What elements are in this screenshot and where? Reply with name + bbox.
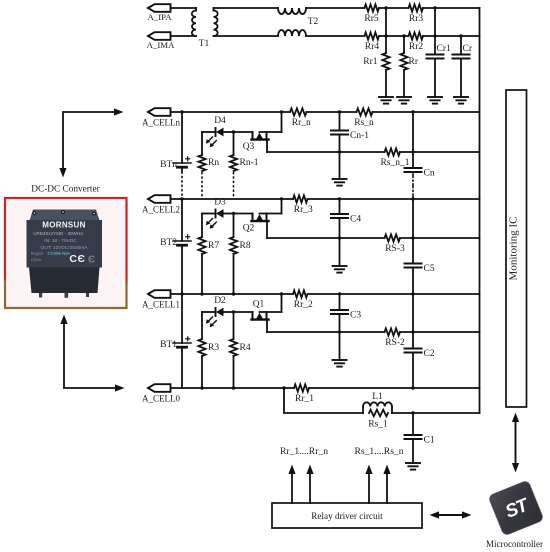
- resistor Rr: [400, 34, 418, 97]
- wire cell rail 2: [171, 198, 480, 200]
- battery BTn: [160, 110, 191, 198]
- ground cell 1: [333, 330, 347, 366]
- svg-text:A_CELL1: A_CELL1: [142, 300, 180, 310]
- box relay driver circuit: [272, 503, 422, 528]
- wire gate 2: [232, 212, 253, 215]
- svg-text:C2: C2: [424, 349, 435, 359]
- svg-text:Rn: Rn: [208, 158, 219, 168]
- connector A_CELL2: [142, 195, 180, 214]
- connector A_IMA: [147, 32, 176, 50]
- box Monitoring IC: [506, 90, 527, 407]
- wire junction link: [384, 6, 387, 37]
- wire right bus: [479, 8, 481, 413]
- svg-text:C5: C5: [424, 264, 435, 274]
- wire gate 1: [232, 310, 253, 313]
- svg-text:Microcontroller: Microcontroller: [486, 539, 543, 549]
- svg-text:Rr_3: Rr_3: [294, 205, 313, 215]
- svg-text:Cn: Cn: [424, 169, 435, 179]
- resistor RS-3: [385, 234, 406, 254]
- capacitor Cn: [405, 110, 435, 198]
- arrow relay output 4: [383, 465, 390, 504]
- svg-text:C3: C3: [350, 311, 361, 321]
- svg-text:Cn-1: Cn-1: [350, 131, 369, 141]
- svg-text:A_CELL2: A_CELL2: [142, 205, 180, 215]
- resistor Rr_1: [294, 384, 314, 404]
- svg-text:Rr_1: Rr_1: [295, 394, 314, 404]
- diode D3: [202, 198, 234, 229]
- arrow IC to microcontroller: [512, 413, 519, 473]
- capacitor C3: [331, 292, 361, 332]
- arrow relay output 2: [306, 465, 313, 504]
- resistor R8: [230, 214, 251, 296]
- transistor Q2: [243, 197, 284, 238]
- svg-text:Rs_1: Rs_1: [368, 420, 388, 430]
- svg-text:D3: D3: [214, 198, 226, 208]
- resistor Rn: [198, 132, 219, 198]
- svg-text:Rs_1....Rs_n: Rs_1....Rs_n: [354, 446, 403, 457]
- svg-text:T1: T1: [199, 39, 210, 49]
- svg-text:D2: D2: [214, 296, 226, 306]
- svg-text:Є: Є: [88, 255, 95, 266]
- svg-text:cⓊus: cⓊus: [31, 256, 41, 262]
- ground Cr1: [428, 97, 442, 104]
- ground Rr1: [379, 97, 393, 104]
- capacitor C2: [405, 292, 435, 388]
- svg-text:Rr_2: Rr_2: [294, 300, 313, 310]
- svg-text:L1: L1: [372, 392, 383, 402]
- label Rs_1....Rs_n: [354, 446, 403, 457]
- wire T1 to T2 bottom: [214, 35, 279, 37]
- svg-text:Rr5: Rr5: [364, 14, 379, 24]
- capacitor Cr1: [427, 6, 452, 97]
- resistor R4: [230, 312, 251, 390]
- svg-text:OUT: 12VDC/2500mA: OUT: 12VDC/2500mA: [41, 245, 89, 251]
- svg-text:Q1: Q1: [253, 300, 265, 310]
- resistor R7: [198, 214, 219, 296]
- svg-text:CЄ: CЄ: [69, 253, 85, 265]
- connector A_CELLn: [142, 108, 180, 127]
- svg-text:Rugged: Rugged: [31, 252, 44, 256]
- svg-text:DC-DC Converter: DC-DC Converter: [31, 185, 100, 195]
- svg-text:Monitoring IC: Monitoring IC: [508, 217, 520, 281]
- connector A_CELL1: [142, 290, 180, 309]
- svg-text:Rr_n: Rr_n: [292, 118, 311, 128]
- svg-text:C1: C1: [424, 436, 435, 446]
- diode D2: [202, 296, 234, 327]
- wire cell rail n: [171, 111, 480, 113]
- resistor Rs_n: [354, 108, 374, 128]
- svg-text:A_CELLn: A_CELLn: [142, 118, 180, 128]
- label DC-DC Converter: [31, 185, 100, 195]
- resistor Rs_1: [368, 410, 388, 430]
- ground C1: [406, 463, 420, 470]
- wire A_IMA to T1: [171, 35, 197, 37]
- ground cell 2: [333, 236, 347, 272]
- wire A_IPA to T1: [171, 8, 197, 11]
- svg-text:R3: R3: [208, 343, 219, 353]
- svg-text:Cr1: Cr1: [437, 44, 452, 54]
- inductor L1: [363, 392, 392, 413]
- svg-text:Rr1: Rr1: [363, 57, 378, 67]
- ground Rr: [397, 97, 411, 104]
- transformer T2: [278, 8, 319, 36]
- svg-text:C4: C4: [350, 215, 361, 225]
- svg-text:MORNSUN: MORNSUN: [42, 221, 85, 230]
- svg-text:R4: R4: [240, 343, 251, 353]
- ground Cr: [454, 97, 468, 104]
- label Microcontroller: [486, 539, 543, 549]
- resistor Rr_n: [290, 108, 311, 128]
- transistor Q1: [252, 292, 284, 332]
- capacitor C1: [405, 411, 435, 463]
- wire gate n: [232, 130, 253, 133]
- capacitor C4: [331, 197, 361, 238]
- svg-text:Q2: Q2: [243, 224, 255, 234]
- svg-text:A_IPA: A_IPA: [147, 12, 172, 22]
- resistor Rr3: [409, 4, 424, 24]
- wire source row 2: [267, 237, 480, 239]
- box DC-DC converter photo frame: [5, 198, 127, 308]
- wire cell rail 0: [171, 386, 480, 389]
- svg-text:R7: R7: [208, 241, 219, 251]
- svg-text:Rn-1: Rn-1: [240, 158, 259, 168]
- svg-text:Rs_n_1: Rs_n_1: [380, 158, 409, 168]
- resistor Rn-1: [230, 132, 259, 198]
- arrow relay output 1: [288, 465, 295, 504]
- wire branch L1: [282, 386, 479, 413]
- svg-text:BTn: BTn: [160, 160, 177, 170]
- svg-text:Rr3: Rr3: [409, 14, 424, 24]
- resistor Rs_n_1: [380, 148, 409, 168]
- svg-text:T2: T2: [308, 17, 319, 27]
- connector A_IPA: [147, 4, 172, 22]
- arrow relay output 3: [365, 465, 372, 504]
- svg-text:RS-2: RS-2: [385, 338, 405, 348]
- ground cell n: [333, 150, 347, 185]
- svg-text:Q3: Q3: [243, 142, 255, 152]
- svg-text:Rs_n: Rs_n: [354, 118, 374, 128]
- svg-text:RS-3: RS-3: [385, 244, 405, 254]
- wire source row 1: [267, 331, 480, 333]
- resistor Rr4: [365, 32, 380, 52]
- svg-text:URB4812YMD - 30WH3: URB4812YMD - 30WH3: [33, 231, 83, 236]
- resistor Rr5: [364, 4, 379, 24]
- svg-text:A_IMA: A_IMA: [147, 40, 176, 50]
- svg-text:D4: D4: [214, 116, 226, 126]
- wire source row n: [267, 151, 480, 153]
- capacitor C5: [405, 197, 435, 294]
- svg-text:IN: 18 - 75VDC: IN: 18 - 75VDC: [44, 238, 77, 244]
- connector A_CELL0: [142, 384, 180, 403]
- arrow DC-DC to A_CELLn: [59, 108, 123, 177]
- resistor Rr_3: [293, 195, 313, 215]
- resistor Rr2: [409, 32, 424, 52]
- resistor R3: [198, 312, 219, 390]
- svg-text:Rr4: Rr4: [365, 42, 380, 52]
- wire second rail: [306, 35, 480, 37]
- wire top rail: [306, 7, 480, 9]
- svg-text:BT1: BT1: [160, 340, 177, 350]
- resistor Rr_2: [293, 290, 313, 310]
- battery BT2: [160, 197, 191, 294]
- capacitor Cr: [453, 34, 473, 97]
- svg-text:Rr2: Rr2: [409, 42, 424, 52]
- chip microcontroller ST: [488, 480, 544, 536]
- wire cell rail 1: [171, 293, 480, 295]
- arrow DC-DC to A_CELL0: [60, 315, 124, 392]
- transistor Q3: [243, 110, 284, 152]
- arrow relay to microcontroller: [430, 511, 472, 518]
- diode D4: [202, 116, 234, 147]
- capacitor Cn-1: [331, 110, 369, 152]
- svg-text:Cr: Cr: [463, 44, 473, 54]
- label Rr_1....Rr_n: [280, 446, 328, 457]
- svg-text:2:1 wide input: 2:1 wide input: [47, 252, 69, 256]
- svg-text:BT2: BT2: [160, 238, 177, 248]
- photo DC-DC module: [27, 210, 103, 298]
- resistor RS-2: [385, 328, 406, 348]
- svg-text:Rr_1....Rr_n: Rr_1....Rr_n: [280, 446, 328, 457]
- svg-text:A_CELL0: A_CELL0: [142, 394, 180, 404]
- svg-text:R8: R8: [240, 241, 251, 251]
- resistor Rr1: [363, 36, 389, 97]
- wire T1 to T2 top: [214, 7, 279, 9]
- svg-text:Rr: Rr: [409, 57, 419, 67]
- transformer T1: [192, 8, 218, 49]
- battery BT1: [160, 292, 191, 388]
- svg-text:Relay driver circuit: Relay driver circuit: [311, 511, 383, 521]
